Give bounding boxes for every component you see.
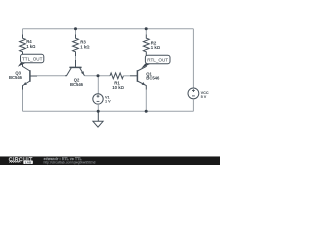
label VCC 5V [201, 91, 209, 99]
voltage source V1 [93, 94, 103, 104]
label R1 value [112, 80, 124, 90]
svg-text:1 kΩ: 1 kΩ [151, 45, 161, 50]
wire VCC to ground rail [192, 99, 194, 112]
transistor Q1 [130, 63, 146, 90]
wire bottom ground rail [23, 110, 194, 112]
wire middle branch drop from rail to R3 [75, 29, 77, 35]
svg-text:http://circuitlab.com/cjwg6kw3: http://circuitlab.com/cjwg6kw35t2nd [44, 161, 96, 165]
wire top VCC rail [23, 28, 194, 30]
svg-text:BC546: BC546 [146, 76, 160, 81]
ground [93, 111, 103, 127]
footer logo CIRCUIT LAB [9, 157, 33, 165]
svg-text:10 kΩ: 10 kΩ [112, 85, 124, 90]
wire left branch drop from rail to R4 [22, 29, 24, 35]
svg-text:BC546: BC546 [9, 75, 23, 80]
wire R3 to Q2 base [75, 56, 77, 60]
wire R1 to Q1 base [123, 75, 130, 77]
node junction at R3 top [74, 27, 77, 30]
net flag RTL_OUT [141, 55, 170, 68]
svg-text:1 kΩ: 1 kΩ [80, 45, 90, 50]
transistor Q2 [65, 60, 85, 76]
node junction at R2 top [145, 27, 148, 30]
label R2 value [151, 41, 161, 50]
label Q3 BC546 [9, 71, 23, 81]
wire Q2 emitter to input node and R1 [85, 75, 111, 77]
svg-text:1 kΩ: 1 kΩ [26, 44, 36, 49]
svg-text:1 V: 1 V [105, 100, 111, 104]
svg-text:5 V: 5 V [201, 95, 207, 99]
footer bar [0, 157, 220, 165]
node junction V1 ground [97, 110, 100, 113]
wire R2 to RTL_OUT node [145, 56, 147, 64]
label Q1 BC546 [146, 71, 160, 80]
wire Q3 emitter down to ground rail [22, 90, 24, 112]
svg-text:RTL_OUT: RTL_OUT [147, 58, 168, 63]
resistor R3 [73, 35, 79, 57]
net flag TTL_OUT [18, 54, 44, 66]
wire VCC branch drop from rail [192, 29, 194, 88]
wire Q1 emitter down to ground rail [145, 90, 147, 112]
voltage source VCC [188, 88, 199, 99]
label R4 value [26, 39, 36, 49]
node junction Q1 emitter ground [145, 110, 148, 113]
wire V1 to ground rail [97, 104, 99, 111]
svg-text:BC546: BC546 [70, 82, 84, 87]
label V1 1V [105, 96, 111, 104]
svg-text:TTL_OUT: TTL_OUT [22, 57, 43, 62]
wire R4 to TTL_OUT node [22, 56, 24, 63]
node junction input node [97, 74, 100, 77]
label Q2 BC546 [70, 78, 84, 87]
label R3 value [80, 40, 90, 50]
resistor R1 [110, 73, 123, 79]
transistor Q3 [23, 63, 38, 90]
wire Q3 base to Q2 collector [37, 75, 65, 77]
resistor R4 [20, 35, 26, 57]
wire right branch drop from rail to R2 [145, 29, 147, 35]
resistor R2 [143, 35, 149, 57]
svg-text:LAB: LAB [25, 160, 32, 164]
wire input node down to V1 [97, 76, 99, 94]
